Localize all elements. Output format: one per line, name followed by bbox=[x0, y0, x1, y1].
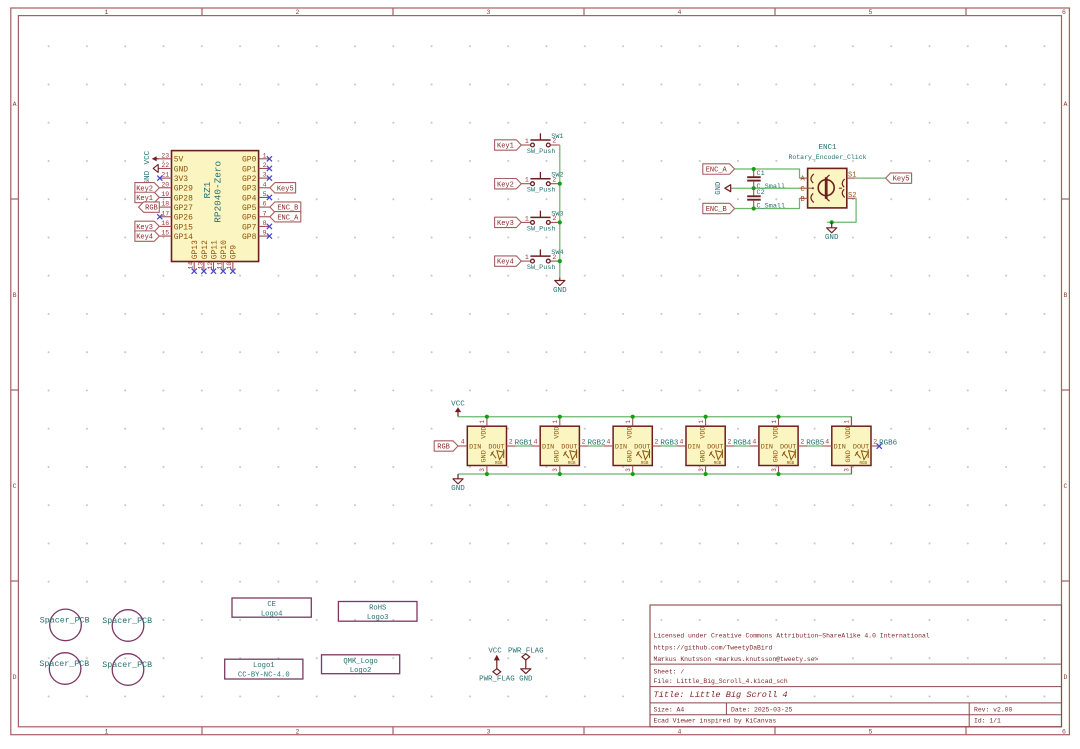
svg-text:1: 1 bbox=[771, 420, 778, 424]
svg-text:Licensed under Creative Common: Licensed under Creative Commons Attribut… bbox=[654, 633, 930, 640]
svg-text:GND: GND bbox=[481, 450, 489, 462]
push button SW3 SW_Push bbox=[521, 210, 563, 233]
svg-text:GND: GND bbox=[772, 450, 780, 462]
svg-text:12: 12 bbox=[207, 262, 214, 270]
power VCC (LED rail) bbox=[451, 401, 465, 417]
svg-text:9: 9 bbox=[263, 230, 267, 237]
svg-text:GP28: GP28 bbox=[174, 194, 193, 203]
global label Key2 (switch input) bbox=[495, 179, 522, 189]
svg-text:GP9: GP9 bbox=[230, 245, 239, 260]
global label ENC_A (GP6) bbox=[270, 212, 301, 222]
svg-text:11: 11 bbox=[217, 262, 224, 270]
svg-text:GP8: GP8 bbox=[242, 233, 257, 242]
wire RGB2 DOUT to RGB3 DIN bbox=[589, 445, 604, 447]
svg-text:Key3: Key3 bbox=[497, 220, 514, 228]
mounting spacer Spacer_PCB H2 bbox=[102, 610, 152, 642]
svg-text:GP3: GP3 bbox=[242, 185, 257, 194]
no-connect RZ1 GP1 bbox=[267, 166, 272, 171]
power VCC on RZ1 pin 23 bbox=[144, 150, 160, 164]
svg-text:ENC1: ENC1 bbox=[818, 144, 837, 152]
junction RGB5 VDD / VCC rail bbox=[776, 415, 780, 419]
capacitor C1 C_Small bbox=[747, 169, 785, 191]
svg-text:16: 16 bbox=[161, 220, 169, 227]
svg-text:B: B bbox=[13, 292, 17, 299]
power flag PWR_FLAG on GND bbox=[508, 647, 543, 683]
global label Key3 (switch input) bbox=[495, 217, 522, 227]
global label Key5 (encoder switch) bbox=[886, 173, 912, 183]
svg-text:4: 4 bbox=[678, 728, 682, 735]
svg-text:4: 4 bbox=[679, 438, 683, 445]
wire encoder S1 to Key5 bbox=[855, 177, 885, 179]
svg-text:GP29: GP29 bbox=[174, 185, 193, 194]
svg-text:6: 6 bbox=[263, 201, 267, 208]
svg-text:Size: A4: Size: A4 bbox=[654, 707, 685, 714]
svg-text:A: A bbox=[13, 101, 17, 108]
svg-text:Key5: Key5 bbox=[277, 185, 294, 193]
svg-text:5V: 5V bbox=[174, 156, 184, 165]
push button SW2 SW_Push bbox=[521, 172, 563, 195]
svg-text:RGB: RGB bbox=[714, 462, 722, 466]
push button SW1 SW_Push bbox=[521, 133, 563, 156]
svg-text:RGB: RGB bbox=[495, 462, 503, 466]
svg-text:Rev: v2.00: Rev: v2.00 bbox=[974, 707, 1013, 714]
junction RGB2 VDD / VCC rail bbox=[558, 415, 562, 419]
ground GND on RZ1 pin 22 bbox=[144, 164, 160, 184]
svg-text:3: 3 bbox=[552, 468, 559, 472]
global label Key1 (switch input) bbox=[495, 140, 522, 150]
global label Key2 (GP29) bbox=[135, 183, 159, 193]
rotary encoder ENC1 Rotary_Encoder_Click bbox=[788, 144, 866, 208]
svg-text:2: 2 bbox=[655, 438, 659, 445]
mounting spacer Spacer_PCB H4 bbox=[102, 654, 152, 686]
no-connect RZ1 GP9 bbox=[230, 269, 235, 274]
svg-text:1: 1 bbox=[525, 215, 529, 222]
svg-text:C2: C2 bbox=[757, 189, 765, 197]
svg-text:1: 1 bbox=[263, 152, 267, 159]
svg-text:7: 7 bbox=[263, 210, 267, 217]
svg-text:3: 3 bbox=[771, 468, 778, 472]
svg-text:GND: GND bbox=[715, 182, 723, 195]
svg-text:S2: S2 bbox=[848, 192, 856, 200]
svg-text:18: 18 bbox=[161, 201, 169, 208]
svg-text:VDD: VDD bbox=[772, 426, 780, 438]
no-connect RGB6 DOUT bbox=[877, 444, 882, 449]
wire ENC_B to encoder pin B bbox=[735, 198, 800, 208]
no-connect RZ1 GP11 bbox=[211, 269, 216, 274]
svg-text:Key5: Key5 bbox=[893, 176, 910, 184]
no-connect RZ1 GP13 bbox=[192, 269, 197, 274]
svg-text:Id: 1/1: Id: 1/1 bbox=[974, 717, 1001, 724]
svg-text:VDD: VDD bbox=[699, 426, 707, 438]
svg-text:SW2: SW2 bbox=[551, 172, 563, 180]
svg-text:4: 4 bbox=[678, 9, 682, 16]
svg-text:C1: C1 bbox=[757, 170, 765, 178]
wire VCC rail bbox=[458, 417, 852, 427]
svg-text:5: 5 bbox=[869, 9, 873, 16]
svg-text:GND: GND bbox=[627, 450, 635, 462]
svg-text:RoHS: RoHS bbox=[369, 605, 386, 613]
svg-text:VDD: VDD bbox=[554, 426, 562, 438]
power VCC with PWR_FLAG bbox=[479, 647, 514, 683]
junction RGB5 GND / GND rail bbox=[776, 472, 780, 476]
svg-text:D: D bbox=[1063, 674, 1067, 681]
no-connect RZ1 GP10 bbox=[221, 269, 226, 274]
svg-text:3V3: 3V3 bbox=[174, 175, 189, 184]
junction C1 top bbox=[752, 167, 756, 171]
svg-text:1: 1 bbox=[698, 420, 705, 424]
svg-text:DIN: DIN bbox=[761, 444, 773, 452]
svg-text:GND: GND bbox=[174, 165, 189, 174]
svg-text:GND: GND bbox=[554, 450, 562, 462]
svg-text:1: 1 bbox=[625, 420, 632, 424]
svg-text:1: 1 bbox=[525, 138, 529, 145]
svg-text:Spacer_PCB: Spacer_PCB bbox=[40, 616, 90, 625]
logo RoHS / Logo3 bbox=[338, 602, 417, 622]
LED RGB3 SK6812MINI bbox=[604, 417, 662, 474]
LED RGB2 SK6812MINI bbox=[531, 417, 589, 474]
svg-text:C: C bbox=[1063, 483, 1067, 490]
svg-text:GP6: GP6 bbox=[242, 214, 257, 223]
wire GND rail bbox=[458, 466, 852, 475]
wire encoder S2 to GND bbox=[827, 198, 856, 222]
no-connect RZ1 GP4 bbox=[267, 195, 272, 200]
svg-text:GP4: GP4 bbox=[242, 194, 257, 203]
svg-text:3: 3 bbox=[487, 728, 491, 735]
svg-text:ENC_B: ENC_B bbox=[706, 206, 727, 214]
junction RGB1 VDD / VCC rail bbox=[485, 415, 489, 419]
title block bbox=[650, 605, 1062, 727]
svg-text:VDD: VDD bbox=[481, 426, 489, 438]
microcontroller RZ1 RP2040-Zero bbox=[159, 151, 270, 270]
svg-text:RGB3: RGB3 bbox=[660, 439, 679, 447]
svg-text:GP5: GP5 bbox=[242, 204, 257, 213]
svg-text:PWR_FLAG: PWR_FLAG bbox=[479, 675, 514, 683]
svg-text:1: 1 bbox=[525, 254, 529, 261]
svg-text:C_Small: C_Small bbox=[757, 202, 786, 210]
svg-text:RGB: RGB bbox=[641, 462, 649, 466]
svg-text:15: 15 bbox=[161, 230, 169, 237]
svg-text:RGB: RGB bbox=[145, 205, 158, 213]
LED RGB5 SK6812MINI bbox=[750, 417, 808, 474]
svg-text:GP10: GP10 bbox=[220, 240, 229, 259]
svg-text:GND: GND bbox=[699, 450, 707, 462]
svg-text:RGB: RGB bbox=[437, 444, 450, 452]
svg-text:Spacer_PCB: Spacer_PCB bbox=[39, 660, 89, 669]
svg-text:GP15: GP15 bbox=[174, 223, 193, 232]
global label Key1 (GP28) bbox=[135, 192, 159, 202]
svg-text:17: 17 bbox=[161, 210, 169, 217]
global label Key5 (GP3) bbox=[270, 183, 296, 193]
svg-text:Spacer_PCB: Spacer_PCB bbox=[102, 617, 152, 626]
svg-text:2: 2 bbox=[263, 162, 267, 169]
svg-text:B: B bbox=[1063, 292, 1067, 299]
svg-text:GP0: GP0 bbox=[242, 156, 257, 165]
junction RGB3 GND / GND rail bbox=[631, 472, 635, 476]
logo QMK_Logo / Logo2 bbox=[322, 655, 400, 675]
svg-text:A: A bbox=[1063, 101, 1067, 108]
svg-text:2: 2 bbox=[509, 438, 513, 445]
svg-text:VCC: VCC bbox=[488, 647, 502, 655]
svg-text:RGB6: RGB6 bbox=[879, 439, 898, 447]
push button SW4 SW_Push bbox=[521, 249, 563, 272]
svg-text:GND: GND bbox=[451, 485, 465, 493]
svg-text:SW1: SW1 bbox=[551, 133, 563, 141]
svg-text:4: 4 bbox=[752, 438, 756, 445]
global label ENC_B (GP5) bbox=[270, 202, 301, 212]
svg-text:Date: 2025-03-25: Date: 2025-03-25 bbox=[731, 707, 793, 714]
svg-text:2: 2 bbox=[727, 438, 731, 445]
svg-text:GND: GND bbox=[845, 450, 853, 462]
svg-text:VCC: VCC bbox=[451, 401, 465, 409]
svg-text:Ecad Viewer inspired by KiCanv: Ecad Viewer inspired by KiCanvas bbox=[654, 717, 777, 724]
svg-text:5: 5 bbox=[263, 191, 267, 198]
svg-text:Logo1: Logo1 bbox=[253, 662, 275, 670]
junction C1/C2 mid bbox=[752, 186, 756, 190]
junction C2 bottom bbox=[752, 206, 756, 210]
svg-text:VDD: VDD bbox=[845, 426, 853, 438]
svg-text:DIN: DIN bbox=[615, 444, 627, 452]
svg-text:1: 1 bbox=[552, 420, 559, 424]
svg-text:GP11: GP11 bbox=[210, 240, 219, 259]
svg-text:4: 4 bbox=[461, 438, 465, 445]
svg-text:GP2: GP2 bbox=[242, 175, 257, 184]
svg-text:2: 2 bbox=[800, 438, 804, 445]
svg-text:GP13: GP13 bbox=[191, 240, 200, 259]
svg-text:RGB4: RGB4 bbox=[733, 439, 752, 447]
svg-text:4: 4 bbox=[825, 438, 829, 445]
logo CE / Logo4 bbox=[232, 598, 311, 618]
svg-text:DIN: DIN bbox=[834, 444, 846, 452]
LED RGB1 SK6812MINI bbox=[458, 417, 516, 474]
svg-text:1: 1 bbox=[525, 177, 529, 184]
junction SW2 / bus bbox=[558, 182, 562, 186]
svg-text:20: 20 bbox=[161, 181, 169, 188]
no-connect RZ1 GP2 bbox=[267, 176, 272, 181]
svg-text:VCC: VCC bbox=[144, 150, 152, 164]
svg-text:10: 10 bbox=[226, 262, 233, 270]
svg-text:2: 2 bbox=[296, 9, 300, 16]
svg-text:22: 22 bbox=[161, 162, 169, 169]
svg-text:SW_Push: SW_Push bbox=[527, 264, 556, 272]
ground GND (encoder filter, left) bbox=[715, 182, 731, 195]
svg-text:https://github.com/TweetyDaBir: https://github.com/TweetyDaBird bbox=[654, 644, 773, 651]
svg-text:3: 3 bbox=[625, 468, 632, 472]
svg-text:C: C bbox=[800, 186, 804, 194]
svg-text:3: 3 bbox=[263, 172, 267, 179]
svg-text:3: 3 bbox=[698, 468, 705, 472]
svg-text:RGB2: RGB2 bbox=[588, 439, 606, 447]
svg-text:3: 3 bbox=[479, 468, 486, 472]
logo Logo1 / CC-BY-NC-4.0 bbox=[225, 659, 303, 679]
svg-text:Sheet: /: Sheet: / bbox=[654, 669, 685, 676]
svg-text:Key4: Key4 bbox=[136, 234, 153, 242]
svg-text:SW3: SW3 bbox=[551, 210, 563, 218]
svg-text:SW_Push: SW_Push bbox=[527, 225, 556, 233]
mounting spacer Spacer_PCB H1 bbox=[40, 609, 90, 641]
svg-text:RGB5: RGB5 bbox=[806, 439, 825, 447]
svg-text:3: 3 bbox=[487, 9, 491, 16]
junction RGB4 GND / GND rail bbox=[704, 472, 708, 476]
svg-text:4: 4 bbox=[263, 181, 267, 188]
svg-text:Key2: Key2 bbox=[497, 181, 514, 189]
svg-text:4: 4 bbox=[607, 438, 611, 445]
no-connect RZ1 GP0 bbox=[267, 156, 272, 161]
svg-text:S1: S1 bbox=[848, 172, 856, 180]
svg-text:RZ1: RZ1 bbox=[202, 181, 213, 198]
svg-text:ENC_A: ENC_A bbox=[706, 167, 728, 175]
svg-text:2: 2 bbox=[296, 728, 300, 735]
junction RGB4 VDD / VCC rail bbox=[704, 415, 708, 419]
no-connect RZ1 3V3 bbox=[157, 176, 162, 181]
svg-text:RGB: RGB bbox=[568, 462, 576, 466]
mounting spacer Spacer_PCB H3 bbox=[39, 653, 89, 685]
wire RGB4 DOUT to RGB5 DIN bbox=[735, 445, 750, 447]
no-connect RZ1 GP26 bbox=[157, 214, 162, 219]
svg-text:2: 2 bbox=[582, 438, 586, 445]
svg-text:GP7: GP7 bbox=[242, 223, 257, 232]
svg-text:QMK_Logo: QMK_Logo bbox=[343, 658, 378, 666]
svg-text:SW_Push: SW_Push bbox=[527, 148, 556, 156]
svg-text:3: 3 bbox=[844, 468, 851, 472]
svg-text:8: 8 bbox=[263, 220, 267, 227]
svg-text:DIN: DIN bbox=[688, 444, 700, 452]
ground GND (switch bus) bbox=[553, 278, 567, 295]
no-connect RZ1 GP7 bbox=[267, 224, 272, 229]
svg-text:GND: GND bbox=[553, 287, 567, 295]
global label ENC_B (to encoder) bbox=[703, 203, 735, 213]
wire GND to encoder pin C bbox=[731, 187, 799, 189]
capacitor C2 C_Small bbox=[747, 188, 785, 210]
svg-text:DIN: DIN bbox=[469, 444, 481, 452]
svg-text:ENC_A: ENC_A bbox=[277, 214, 299, 222]
wire switch common bus to GND bbox=[559, 145, 561, 278]
svg-text:SW4: SW4 bbox=[551, 249, 563, 257]
LED RGB6 SK6812MINI bbox=[823, 417, 881, 474]
global label RGB (GP27) bbox=[139, 202, 160, 212]
svg-text:Title: Little Big Scroll 4: Title: Little Big Scroll 4 bbox=[654, 690, 788, 700]
svg-text:DIN: DIN bbox=[542, 444, 554, 452]
svg-text:GP26: GP26 bbox=[174, 214, 193, 223]
svg-text:14: 14 bbox=[188, 262, 195, 270]
junction RGB1 GND / GND rail bbox=[485, 472, 489, 476]
svg-text:Spacer_PCB: Spacer_PCB bbox=[102, 661, 152, 670]
svg-text:B: B bbox=[800, 196, 804, 204]
svg-text:GP12: GP12 bbox=[201, 240, 210, 259]
junction RGB3 VDD / VCC rail bbox=[631, 415, 635, 419]
svg-text:Logo2: Logo2 bbox=[350, 667, 372, 675]
global label ENC_A (to encoder) bbox=[703, 164, 735, 174]
junction S2 / GND bbox=[830, 220, 834, 224]
wire ENC_A to encoder pin A bbox=[735, 169, 800, 178]
ground GND (encoder S2) bbox=[825, 222, 839, 242]
no-connect RZ1 GP12 bbox=[201, 269, 206, 274]
svg-text:RGB1: RGB1 bbox=[515, 439, 534, 447]
svg-text:5: 5 bbox=[869, 728, 873, 735]
svg-text:RGB: RGB bbox=[860, 462, 868, 466]
svg-text:19: 19 bbox=[161, 191, 169, 198]
global label Key3 (GP15) bbox=[135, 221, 159, 231]
global label Key4 (switch input) bbox=[495, 256, 522, 266]
svg-text:1: 1 bbox=[844, 420, 851, 424]
svg-text:1: 1 bbox=[479, 420, 486, 424]
svg-text:RGB: RGB bbox=[787, 462, 795, 466]
global label RGB (LED data in) bbox=[434, 441, 458, 451]
global label Key4 (GP14) bbox=[135, 231, 159, 241]
svg-text:GP1: GP1 bbox=[242, 165, 257, 174]
ground GND (LED rail) bbox=[451, 474, 465, 493]
svg-text:GP27: GP27 bbox=[174, 204, 193, 213]
svg-text:CE: CE bbox=[267, 601, 276, 609]
svg-text:File: Little_Big_Scroll_4.kica: File: Little_Big_Scroll_4.kicad_sch bbox=[654, 678, 788, 685]
svg-text:Key1: Key1 bbox=[497, 143, 514, 151]
wire RGB3 DOUT to RGB4 DIN bbox=[662, 445, 677, 447]
svg-text:C: C bbox=[13, 483, 17, 490]
svg-text:4: 4 bbox=[534, 438, 538, 445]
svg-text:1: 1 bbox=[105, 9, 109, 16]
svg-text:Logo3: Logo3 bbox=[367, 614, 389, 622]
svg-text:23: 23 bbox=[161, 152, 169, 159]
junction RGB2 GND / GND rail bbox=[558, 472, 562, 476]
svg-text:D: D bbox=[13, 674, 17, 681]
wire RGB5 DOUT to RGB6 DIN bbox=[807, 445, 822, 447]
svg-text:6: 6 bbox=[1062, 728, 1066, 735]
svg-text:1: 1 bbox=[105, 728, 109, 735]
svg-text:GND: GND bbox=[519, 675, 533, 683]
svg-text:CC-BY-NC-4.0: CC-BY-NC-4.0 bbox=[238, 672, 290, 680]
wire RGB1 DOUT to RGB2 DIN bbox=[516, 445, 531, 447]
no-connect RZ1 GP8 bbox=[267, 233, 272, 238]
junction SW3 / bus bbox=[558, 220, 562, 224]
svg-text:Rotary_Encoder_Click: Rotary_Encoder_Click bbox=[788, 154, 866, 161]
svg-text:Markus Knutsson <markus.knutss: Markus Knutsson <markus.knutsson@tweety.… bbox=[654, 656, 819, 663]
svg-text:6: 6 bbox=[1062, 9, 1066, 16]
svg-text:Key4: Key4 bbox=[497, 259, 514, 267]
svg-text:VDD: VDD bbox=[627, 426, 635, 438]
svg-text:21: 21 bbox=[161, 172, 169, 179]
svg-text:Logo4: Logo4 bbox=[261, 610, 283, 618]
svg-text:GND: GND bbox=[825, 234, 839, 242]
svg-text:SW_Push: SW_Push bbox=[527, 187, 556, 195]
junction SW4 / bus bbox=[558, 259, 562, 263]
svg-text:RP2040-Zero: RP2040-Zero bbox=[212, 160, 223, 222]
svg-text:13: 13 bbox=[197, 262, 204, 270]
LED RGB4 SK6812MINI bbox=[677, 417, 735, 474]
